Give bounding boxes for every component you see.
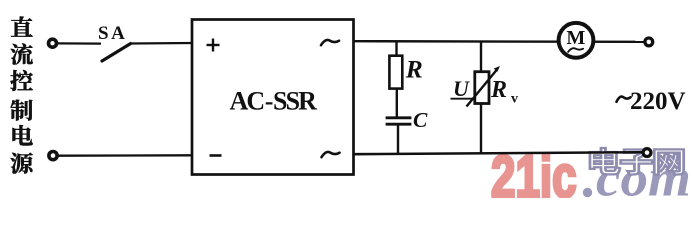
svg-text:220V: 220V (630, 88, 686, 115)
label ~220V (617, 97, 631, 102)
svg-text:SA: SA (98, 23, 127, 44)
wire: capacitor C to bottom rail (397, 126, 399, 156)
terminal: AC 220V (top right) (645, 38, 653, 46)
motor M (559, 23, 594, 58)
varistor RV arrow (467, 70, 498, 107)
varistor RV body (475, 72, 489, 104)
svg-text:v: v (511, 92, 518, 107)
wire: bottom-left terminal to AC-SSR box (58, 154, 193, 157)
terminal: AC 220V (bottom right) (643, 149, 651, 157)
wire: top rail to resistor R (395, 41, 397, 57)
wire: resistor R to capacitor C (396, 89, 398, 117)
switch SA blade (102, 44, 131, 61)
pin label - (210, 154, 222, 157)
wire: top AC rail from box to right terminal (353, 40, 645, 43)
resistor R (389, 56, 402, 89)
svg-text:R: R (490, 77, 507, 103)
wire: varistor RV to bottom rail (480, 104, 482, 155)
svg-text:M: M (566, 27, 585, 49)
wire: top rail to varistor RV (480, 41, 482, 72)
wire: bottom AC rail from box to right terminal (353, 152, 644, 154)
wire: top-left terminal to switch SA (57, 42, 101, 44)
svg-text:U: U (453, 76, 470, 101)
wire: switch SA to AC-SSR box (131, 42, 193, 45)
AC-SSR module box (192, 20, 354, 175)
watermark characters 电子网 (outlined) (590, 148, 620, 174)
svg-text:R: R (405, 55, 423, 84)
pin label ~ (top right) (321, 40, 339, 45)
svg-text:C: C (413, 108, 428, 132)
svg-text:AC-SSR: AC-SSR (230, 87, 318, 116)
terminal: DC input + (top left) (49, 39, 57, 47)
terminal: DC input - (bottom left) (49, 152, 57, 160)
pin label ~ (bottom right) (322, 152, 340, 157)
vertical label: DC control power 直流控制电源 (11, 16, 33, 36)
capacitor C (386, 116, 412, 119)
pin label + (207, 44, 220, 46)
